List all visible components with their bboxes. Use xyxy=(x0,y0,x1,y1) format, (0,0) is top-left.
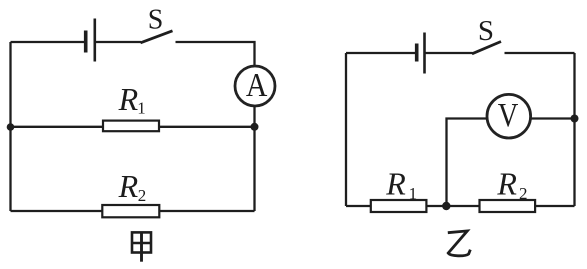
wire: top wire from left corner to battery xyxy=(346,52,416,54)
wire: top wire from left corner to battery xyxy=(11,41,86,43)
ammeter A1 circle xyxy=(235,66,275,106)
svg-text:R: R xyxy=(496,166,517,202)
wire: right vertical side of right circuit xyxy=(573,53,575,206)
svg-text:1: 1 xyxy=(409,184,418,203)
wire: bottom branch left segment to R2 xyxy=(11,210,104,212)
svg-text:2: 2 xyxy=(519,184,528,203)
wire: battery to switch pivot xyxy=(95,41,141,43)
battery cell (right circuit): short thick negative plate xyxy=(415,44,419,62)
svg-text:2: 2 xyxy=(138,186,147,205)
wire: voltmeter right lead to right-side junction xyxy=(531,117,575,119)
wire: voltmeter left lead and drop to bottom node xyxy=(447,119,488,207)
wire: middle branch left segment to R1 xyxy=(11,126,105,128)
battery cell (left circuit): long thin positive plate xyxy=(94,19,97,62)
wire: middle branch right segment from R1 to junction xyxy=(159,126,255,128)
caption: Chinese character jia (first figure) drawn as strokes xyxy=(132,232,151,261)
junction dot: left middle node xyxy=(7,123,15,131)
svg-text:V: V xyxy=(498,97,519,134)
svg-text:1: 1 xyxy=(137,99,146,118)
switch S (left circuit): open blade xyxy=(141,31,173,43)
wire: right vertical from middle junction down to bottom wire xyxy=(253,127,255,211)
wire: bottom wire from R2 to right corner xyxy=(535,205,574,207)
svg-text:A: A xyxy=(246,67,268,104)
resistor R2 (left circuit) body xyxy=(102,205,159,217)
wire: bottom branch right segment from R2 to corner xyxy=(159,210,254,212)
wire: switch contact to top-right corner, down to ammeter xyxy=(176,42,255,67)
resistor R1 (left circuit) body xyxy=(103,121,159,132)
svg-text:R: R xyxy=(385,166,406,202)
wire: bottom wire between R1 and R2 xyxy=(426,205,479,207)
svg-text:R: R xyxy=(118,81,139,117)
junction dot: right middle node xyxy=(251,123,259,131)
resistor R2 (right circuit) body xyxy=(480,200,536,212)
svg-text:S: S xyxy=(478,15,494,47)
junction dot: right side voltmeter tap node xyxy=(571,115,579,123)
wire: ammeter bottom to middle-right junction xyxy=(253,106,255,127)
resistor R1 (right circuit) body xyxy=(371,200,427,212)
caption: Chinese character yi (second figure) drawn as strokes xyxy=(448,231,471,256)
battery cell (left circuit): short thick negative plate xyxy=(84,31,88,53)
wire: bottom wire from left corner to R1 xyxy=(346,205,372,207)
svg-text:R: R xyxy=(118,168,139,204)
svg-text:S: S xyxy=(148,5,164,36)
wire: left vertical side of right circuit xyxy=(345,53,347,206)
wire: switch contact to top-right corner xyxy=(505,52,575,54)
switch S (right circuit): open blade xyxy=(472,42,501,54)
wire: left vertical side of left circuit xyxy=(9,42,11,211)
voltmeter V1 circle xyxy=(487,94,531,138)
wire: battery to switch pivot xyxy=(425,52,473,54)
battery cell (right circuit): long thin positive plate xyxy=(423,33,426,74)
junction dot: bottom middle node between R1 and R2 xyxy=(442,202,450,210)
